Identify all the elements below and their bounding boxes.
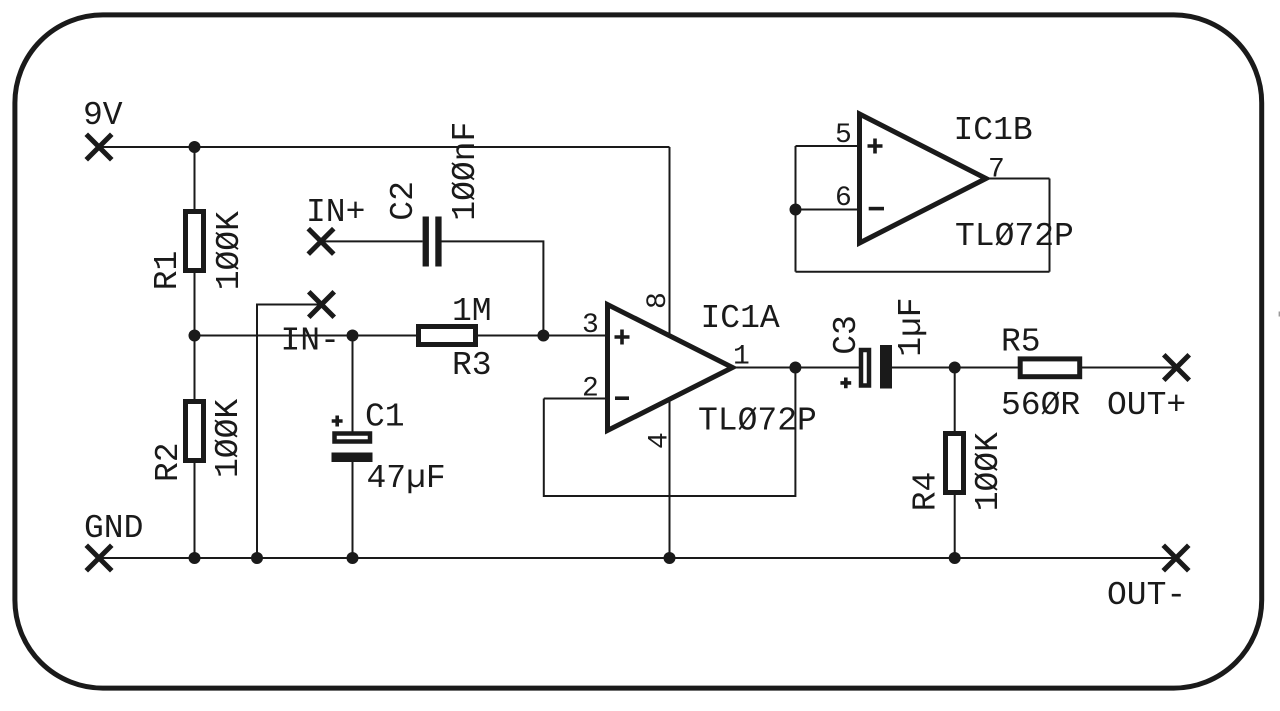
svg-text:1µF: 1µF <box>893 297 930 356</box>
svg-text:7: 7 <box>988 155 1005 186</box>
wire R1 to mid rail <box>194 273 196 399</box>
wire IC1B pin 6 <box>796 209 860 211</box>
resistor R4 <box>946 434 964 493</box>
resistor R2 <box>186 402 204 461</box>
wire C3 to node <box>892 367 955 369</box>
svg-text:1: 1 <box>733 342 750 373</box>
op-amp IC1B <box>860 114 987 243</box>
svg-text:R5: R5 <box>1001 323 1041 360</box>
junction top rail / R1 <box>189 141 201 153</box>
svg-text:C2: C2 <box>385 181 422 221</box>
capacitor C3 <box>861 345 892 389</box>
junction bottom rail IN- <box>251 552 263 564</box>
wire IC1B pin 5 <box>796 145 860 147</box>
wire pin8/pin4 vertical <box>669 147 671 558</box>
svg-text:4: 4 <box>645 432 676 449</box>
wire node to R5 <box>955 367 1018 369</box>
terminal OUT- <box>1163 545 1189 571</box>
minus sign IC1A <box>615 396 629 400</box>
svg-text:8: 8 <box>643 292 674 309</box>
terminal GND <box>86 545 112 571</box>
svg-text:5: 5 <box>835 120 852 151</box>
terminal IN- <box>309 292 335 318</box>
capacitor C2 <box>423 217 442 267</box>
svg-text:R2: R2 <box>150 442 187 482</box>
svg-text:R3: R3 <box>452 347 492 384</box>
edge artifact mark <box>1279 312 1280 317</box>
svg-text:OUT+: OUT+ <box>1107 387 1186 424</box>
junction output node <box>789 362 801 374</box>
wire IN- branch <box>257 305 324 559</box>
junction bottom rail R1R2 <box>189 552 201 564</box>
wire IN+ to C2 <box>321 240 423 242</box>
wire R5 to OUT+ <box>1082 367 1177 369</box>
svg-text:2: 2 <box>582 374 599 405</box>
svg-text:TLØ72P: TLØ72P <box>955 218 1074 255</box>
wire IC1B loop bottom <box>796 271 1050 273</box>
svg-text:IN+: IN+ <box>306 194 365 231</box>
svg-text:OUT-: OUT- <box>1107 577 1186 614</box>
svg-text:R4: R4 <box>908 472 945 512</box>
junction bottom rail pin 4 <box>664 552 676 564</box>
junction IC1B pin 6 <box>790 204 802 216</box>
svg-text:1ØØK: 1ØØK <box>211 211 248 290</box>
svg-text:C3: C3 <box>828 315 865 355</box>
wire R1 branch <box>194 147 196 209</box>
terminal OUT+ <box>1164 355 1190 381</box>
resistor R5 <box>1020 359 1079 377</box>
svg-text:IC1A: IC1A <box>701 300 780 337</box>
plus sign C1 <box>332 416 343 427</box>
wire pin 2 <box>544 398 606 400</box>
wire R4 top <box>954 368 956 432</box>
wire mid rail to R3 <box>195 335 417 337</box>
minus sign IC1B <box>869 207 884 211</box>
terminal 9V <box>86 134 112 160</box>
wire R3 to pin 3 <box>478 335 606 337</box>
wire C2 to mid rail <box>442 241 544 335</box>
plus sign IC1A <box>615 330 630 345</box>
plus sign IC1B <box>868 139 883 154</box>
junction bottom rail C1 <box>347 552 359 564</box>
svg-text:R1: R1 <box>149 251 186 291</box>
wire C1 bottom <box>352 462 354 558</box>
wire C1 top <box>352 336 354 433</box>
op-amp IC1A <box>608 305 733 431</box>
svg-text:IN-: IN- <box>281 323 340 360</box>
wire feedback loop <box>544 368 796 497</box>
svg-text:1M: 1M <box>452 293 492 330</box>
svg-text:9V: 9V <box>83 97 123 134</box>
wire R4 bottom <box>954 495 956 558</box>
svg-text:TLØ72P: TLØ72P <box>698 403 817 440</box>
wire bottom rail GND <box>99 557 1177 559</box>
terminal IN+ <box>308 229 334 255</box>
capacitor C1 <box>332 434 373 463</box>
wire top rail 9V <box>99 146 670 148</box>
svg-text:C1: C1 <box>365 399 405 436</box>
plus sign C3 <box>840 378 851 389</box>
wire IC1B loop right <box>1049 179 1051 272</box>
svg-text:1ØØK: 1ØØK <box>210 399 247 478</box>
wire IC1B left vertical <box>795 146 797 272</box>
junction C1 / mid rail <box>347 330 359 342</box>
resistor R3 <box>419 327 476 345</box>
svg-text:1ØØnF: 1ØØnF <box>447 122 484 221</box>
svg-text:IC1B: IC1B <box>954 112 1033 149</box>
svg-text:56ØR: 56ØR <box>1001 387 1080 424</box>
svg-text:GND: GND <box>84 510 143 547</box>
junction C3/R4/R5 node <box>949 362 961 374</box>
junction C2 / mid rail <box>537 330 549 342</box>
wire IC1B output pin 7 <box>986 178 1050 180</box>
svg-text:47µF: 47µF <box>367 460 446 497</box>
svg-text:3: 3 <box>582 310 599 341</box>
junction bottom rail R4 <box>949 552 961 564</box>
svg-text:1ØØK: 1ØØK <box>970 432 1007 511</box>
wire output pin 1 <box>733 367 795 369</box>
junction mid rail / R1-R2 <box>189 330 201 342</box>
svg-text:6: 6 <box>835 183 852 214</box>
resistor R1 <box>186 212 204 271</box>
wire R2 to bottom rail <box>194 463 196 558</box>
wire output to C3 <box>795 367 859 369</box>
